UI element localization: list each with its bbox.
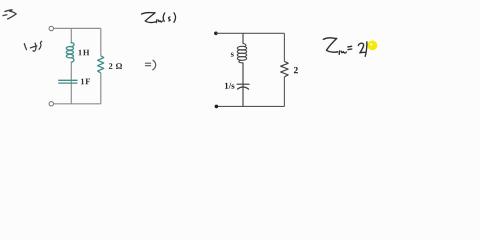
label s [231,53,234,57]
middle circuit: right branch upper wire [283,33,285,61]
left circuit: top wire [54,27,101,29]
left circuit: right branch lower wire [100,73,102,104]
label 1 F [81,79,90,85]
left circuit: middle branch upper wire [70,28,72,43]
printed arrow =) between circuits [146,60,156,70]
middle circuit: top wire [216,32,285,34]
left circuit: top-left terminal [49,26,53,30]
handwritten double-arrow symbol [3,10,16,19]
middle circuit: top-left node dot [214,32,218,36]
capacitor 1/s (straight + curved plate) [237,84,249,89]
middle circuit: bottom wire [216,105,284,107]
inductor 1H (teal coil) [66,43,74,63]
handwritten Z_in(s) annotation [142,13,176,23]
left circuit: middle branch lower wire (passes through capacitor) [70,62,72,103]
middle circuit: right branch lower wire [283,77,285,107]
label 2 ohm [109,63,122,69]
left circuit: bottom wire [54,103,101,105]
label 2 [294,67,298,73]
inductor s (black coil) [237,44,246,63]
handwritten Z_in = 2 annotation [323,38,367,56]
yellow pointer dot [368,41,378,51]
resistor 2 ohm (teal zigzag) [98,56,104,73]
middle circuit: bottom-left node dot [215,105,219,109]
resistor 2 (black zigzag) [281,61,289,76]
capacitor 1F (teal plates) [58,80,77,83]
handwritten (t) annotation [24,41,41,51]
label 1 H [79,50,90,56]
label 1/s [225,83,235,89]
middle circuit: middle branch lower wire (passes through capacitor) [242,63,244,107]
left circuit: bottom-left terminal [49,102,53,106]
middle circuit: middle branch upper wire [242,33,244,43]
left circuit: right branch upper wire [100,28,102,55]
